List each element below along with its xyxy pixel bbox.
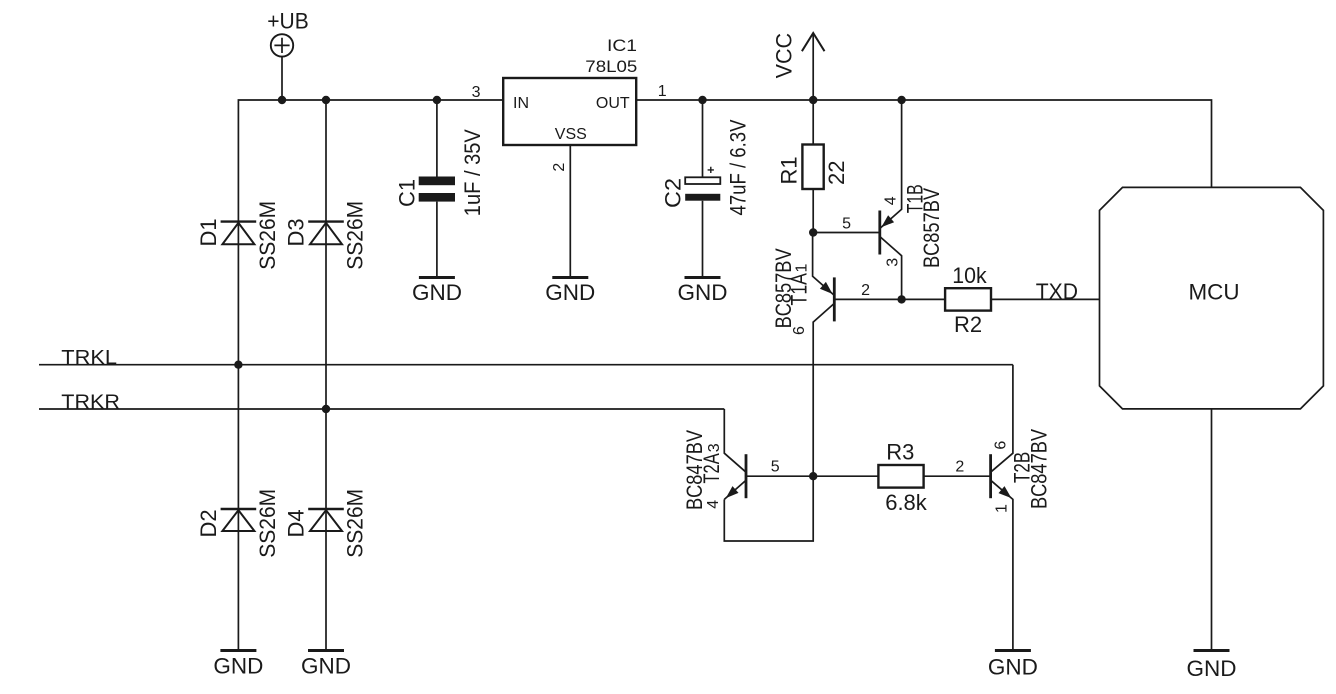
svg-text:2: 2 (955, 459, 964, 476)
svg-text:10k: 10k (952, 263, 987, 288)
svg-text:TRKR: TRKR (61, 392, 120, 414)
svg-text:4: 4 (705, 500, 722, 509)
svg-text:BC857BV: BC857BV (771, 248, 796, 328)
svg-text:SS26M: SS26M (255, 489, 280, 558)
svg-text:5: 5 (842, 215, 851, 232)
svg-text:47uF / 6.3V: 47uF / 6.3V (726, 119, 751, 215)
svg-text:22: 22 (824, 161, 849, 185)
svg-text:1: 1 (658, 83, 667, 100)
svg-text:SS26M: SS26M (255, 201, 280, 270)
svg-text:VSS: VSS (555, 126, 587, 143)
svg-text:1: 1 (994, 504, 1011, 513)
svg-text:GND: GND (545, 280, 595, 305)
svg-text:SS26M: SS26M (343, 201, 368, 270)
svg-text:1uF / 35V: 1uF / 35V (460, 129, 485, 216)
svg-text:D2: D2 (196, 509, 221, 537)
svg-text:GND: GND (678, 280, 728, 305)
svg-text:BC857BV: BC857BV (919, 188, 944, 268)
svg-text:TRKL: TRKL (61, 347, 117, 369)
svg-text:5: 5 (771, 458, 780, 475)
svg-text:1: 1 (794, 264, 811, 273)
svg-text:IN: IN (513, 95, 529, 112)
svg-text:D3: D3 (284, 218, 309, 246)
svg-text:2: 2 (861, 282, 870, 299)
svg-text:D1: D1 (196, 218, 221, 246)
svg-text:BC847BV: BC847BV (1027, 429, 1052, 509)
svg-text:GND: GND (301, 654, 351, 679)
svg-text:C2: C2 (660, 178, 685, 208)
svg-text:IC1: IC1 (607, 36, 637, 55)
svg-text:OUT: OUT (596, 95, 630, 112)
svg-text:6.8k: 6.8k (885, 490, 928, 515)
svg-text:BC847BV: BC847BV (682, 430, 707, 510)
svg-text:3: 3 (472, 84, 481, 101)
svg-text:R3: R3 (886, 440, 914, 465)
svg-text:GND: GND (1187, 656, 1237, 681)
svg-text:GND: GND (412, 280, 462, 305)
svg-text:6: 6 (993, 441, 1010, 450)
svg-text:D4: D4 (284, 509, 309, 537)
svg-text:3: 3 (706, 443, 723, 452)
svg-text:3: 3 (885, 258, 902, 267)
svg-text:2: 2 (551, 163, 568, 172)
svg-text:MCU: MCU (1189, 280, 1240, 305)
svg-text:+UB: +UB (267, 8, 309, 33)
svg-text:SS26M: SS26M (343, 489, 368, 558)
svg-text:78L05: 78L05 (585, 57, 637, 76)
svg-text:4: 4 (883, 196, 900, 205)
svg-text:GND: GND (213, 654, 263, 679)
svg-text:R2: R2 (954, 312, 982, 337)
svg-text:R1: R1 (777, 156, 802, 184)
svg-text:C1: C1 (395, 179, 420, 207)
svg-text:GND: GND (988, 655, 1038, 680)
svg-text:TXD: TXD (1036, 279, 1078, 304)
svg-text:VCC: VCC (772, 33, 797, 79)
